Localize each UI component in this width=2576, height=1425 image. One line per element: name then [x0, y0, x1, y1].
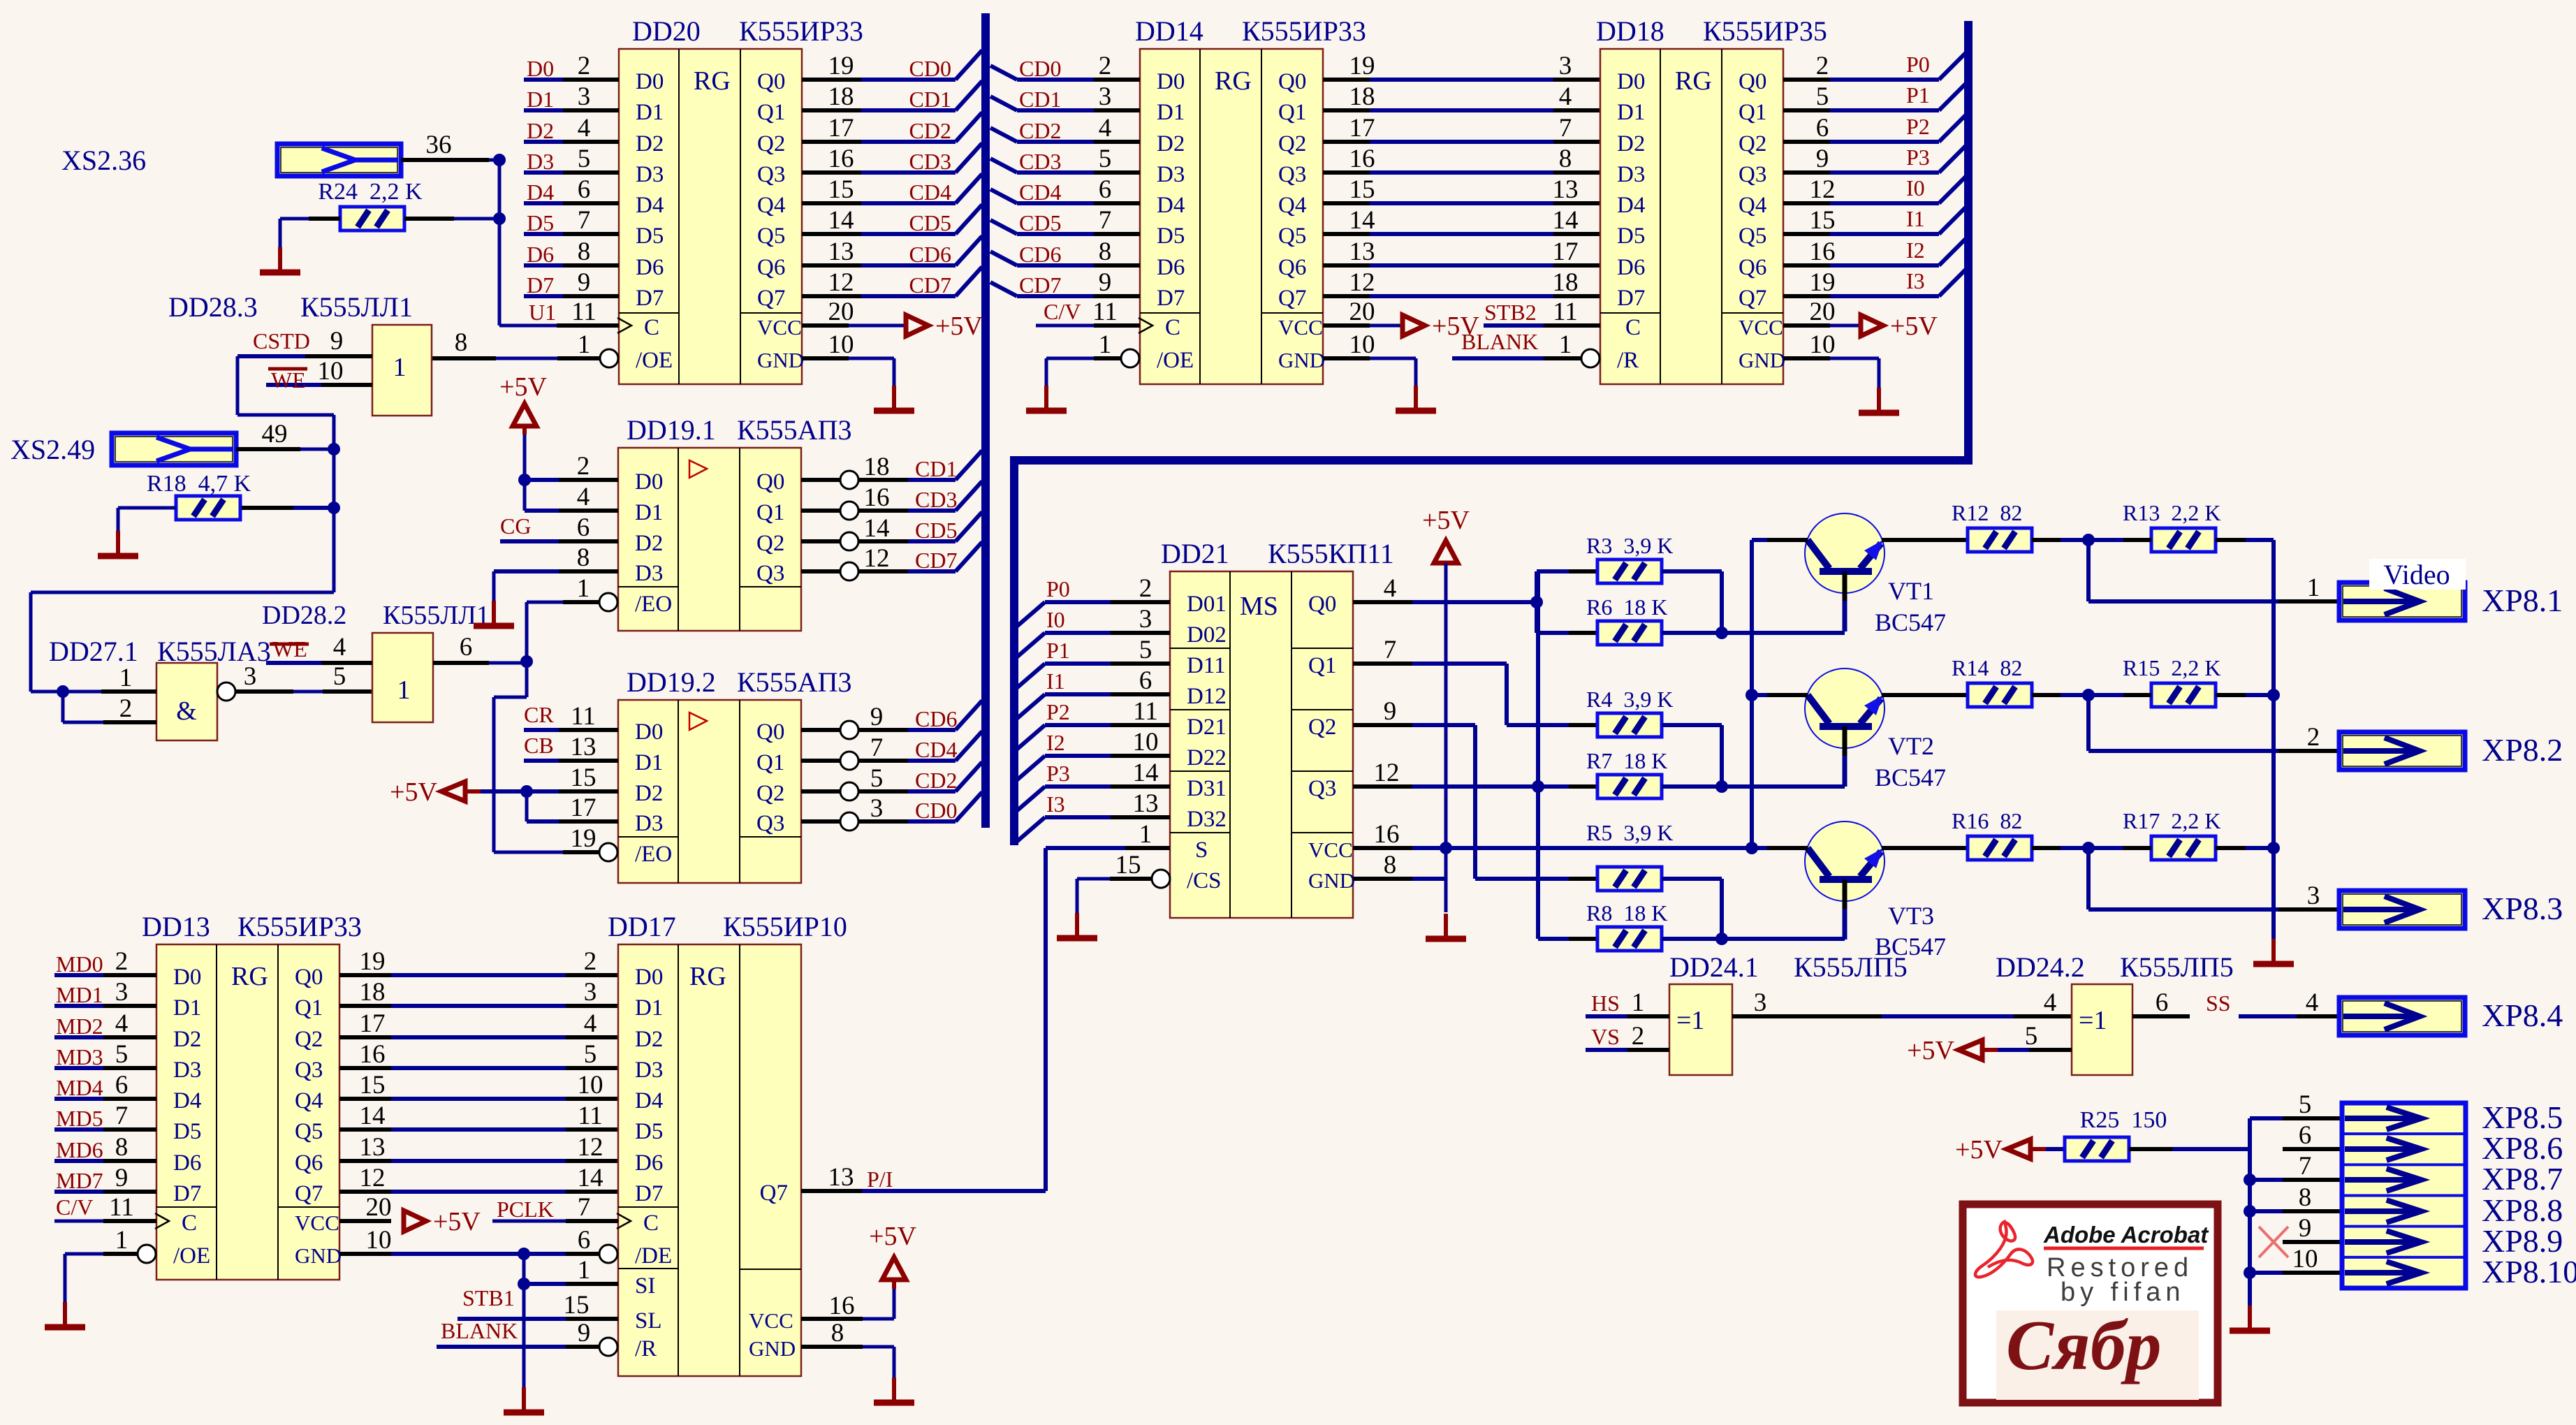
svg-text:C: C: [643, 1211, 659, 1236]
svg-text:GND: GND: [749, 1336, 796, 1361]
svg-text:15: 15: [360, 1071, 386, 1099]
svg-text:RG: RG: [1215, 66, 1252, 96]
svg-text:D4: D4: [173, 1088, 201, 1113]
svg-text:U1: U1: [529, 300, 556, 325]
svg-text:D4: D4: [1157, 193, 1185, 218]
svg-text:D5: D5: [635, 1119, 663, 1144]
svg-text:D3: D3: [1617, 162, 1645, 187]
svg-text:2: 2: [119, 694, 133, 723]
svg-text:8: 8: [1099, 237, 1112, 266]
svg-text:4: 4: [333, 633, 346, 662]
svg-text:14: 14: [1133, 759, 1159, 787]
svg-text:4: 4: [2306, 988, 2319, 1017]
svg-text:1: 1: [1099, 330, 1112, 359]
svg-text:Q1: Q1: [295, 995, 323, 1021]
svg-text:13: 13: [828, 1163, 854, 1192]
svg-text:8: 8: [1559, 145, 1572, 173]
svg-text:MD3: MD3: [56, 1044, 103, 1069]
svg-text:CD7: CD7: [915, 548, 957, 573]
svg-text:16: 16: [864, 483, 890, 512]
svg-text:R16 82: R16 82: [1952, 808, 2022, 833]
svg-text:18: 18: [1349, 82, 1375, 111]
svg-text:3: 3: [244, 662, 257, 691]
svg-text:C: C: [644, 315, 659, 340]
svg-text:D32: D32: [1187, 807, 1227, 832]
svg-text:Q0: Q0: [1278, 69, 1306, 94]
svg-text:R17 2,2 K: R17 2,2 K: [2123, 808, 2220, 833]
svg-text:15: 15: [828, 175, 854, 204]
svg-text:Q5: Q5: [757, 224, 785, 249]
svg-text:Q1: Q1: [757, 100, 785, 125]
svg-text:CD4: CD4: [1019, 180, 1061, 205]
svg-text:CD6: CD6: [915, 706, 957, 731]
svg-text:D1: D1: [1617, 100, 1645, 125]
svg-text:Сябр: Сябр: [2006, 1306, 2161, 1385]
svg-text:CD6: CD6: [909, 242, 951, 267]
svg-text:CD5: CD5: [915, 518, 957, 543]
svg-text:2: 2: [1816, 52, 1829, 80]
svg-text:DD27.1: DD27.1: [49, 636, 138, 667]
svg-text:/R: /R: [635, 1336, 657, 1361]
svg-text:Q3: Q3: [756, 811, 784, 836]
svg-text:D2: D2: [636, 131, 664, 156]
svg-text:Q5: Q5: [1739, 224, 1766, 249]
svg-text:CD6: CD6: [1019, 242, 1061, 267]
svg-text:6: 6: [115, 1071, 129, 1099]
svg-text:MD4: MD4: [56, 1075, 103, 1100]
svg-text:16: 16: [360, 1040, 386, 1069]
svg-text:12: 12: [1349, 268, 1375, 297]
svg-text:BC547: BC547: [1875, 608, 1946, 636]
svg-text:XP8.1: XP8.1: [2482, 583, 2563, 618]
svg-text:CD1: CD1: [915, 456, 957, 481]
svg-text:P2: P2: [1046, 699, 1070, 724]
svg-text:1: 1: [577, 574, 590, 603]
svg-text:6: 6: [577, 513, 590, 542]
svg-text:D2: D2: [1157, 131, 1185, 156]
svg-text:R8 18 K: R8 18 K: [1586, 900, 1667, 926]
svg-text:MD6: MD6: [56, 1137, 103, 1162]
svg-text:/EO: /EO: [635, 842, 672, 867]
svg-text:XP8.4: XP8.4: [2482, 997, 2563, 1033]
svg-text:D01: D01: [1187, 592, 1227, 617]
svg-text:D4: D4: [635, 1088, 663, 1113]
svg-text:7: 7: [1099, 206, 1112, 235]
svg-text:CD1: CD1: [909, 87, 951, 112]
svg-text:I1: I1: [1906, 206, 1925, 231]
svg-text:C/V: C/V: [1044, 299, 1081, 324]
svg-text:D2: D2: [1617, 131, 1645, 156]
svg-text:D0: D0: [635, 469, 663, 495]
svg-text:4: 4: [584, 1009, 597, 1038]
svg-text:D0: D0: [1617, 69, 1645, 94]
svg-text:5: 5: [2025, 1022, 2038, 1051]
svg-text:Q1: Q1: [1308, 653, 1336, 678]
svg-text:XP8.10: XP8.10: [2482, 1254, 2576, 1289]
svg-text:D3: D3: [1157, 162, 1185, 187]
svg-text:XS2.49: XS2.49: [10, 434, 95, 465]
svg-text:9: 9: [870, 703, 884, 731]
svg-text:/OE: /OE: [1157, 348, 1194, 373]
svg-text:D7: D7: [1617, 286, 1645, 311]
svg-text:Q4: Q4: [1739, 193, 1766, 218]
svg-text:11: 11: [109, 1193, 134, 1222]
svg-text:I3: I3: [1046, 791, 1065, 817]
svg-text:D3: D3: [527, 149, 554, 174]
svg-text:5: 5: [115, 1040, 129, 1069]
svg-text:Q6: Q6: [1739, 255, 1766, 280]
svg-text:BLANK: BLANK: [1461, 329, 1538, 354]
svg-text:5: 5: [1816, 82, 1829, 111]
svg-text:Q7: Q7: [1278, 286, 1306, 311]
svg-text:К555ИР33: К555ИР33: [1242, 15, 1366, 47]
svg-text:13: 13: [1133, 789, 1159, 818]
svg-text:5: 5: [333, 662, 346, 691]
svg-text:D5: D5: [636, 224, 664, 249]
svg-text:5: 5: [584, 1040, 597, 1069]
svg-text:6: 6: [460, 633, 473, 662]
svg-text:11: 11: [571, 702, 596, 731]
svg-text:Q2: Q2: [1739, 131, 1766, 156]
svg-text:+5V: +5V: [433, 1207, 481, 1236]
svg-text:GND: GND: [757, 348, 804, 372]
svg-text:3: 3: [1139, 605, 1152, 634]
svg-text:10: 10: [1133, 728, 1159, 757]
svg-text:Q2: Q2: [1278, 131, 1306, 156]
svg-text:SI: SI: [635, 1273, 655, 1299]
svg-text:3: 3: [1099, 82, 1112, 111]
svg-text:DD24.1: DD24.1: [1669, 951, 1759, 983]
svg-text:49: 49: [262, 420, 288, 448]
svg-text:Q4: Q4: [757, 193, 785, 218]
svg-text:GND: GND: [1739, 348, 1785, 372]
svg-text:К555КП11: К555КП11: [1268, 538, 1394, 569]
svg-text:R15 2,2 K: R15 2,2 K: [2123, 655, 2220, 680]
svg-text:8: 8: [2299, 1183, 2312, 1212]
svg-text:14: 14: [1349, 206, 1375, 235]
svg-text:STB2: STB2: [1484, 300, 1537, 325]
svg-text:D1: D1: [636, 100, 664, 125]
svg-text:D0: D0: [1157, 69, 1185, 94]
svg-text:S: S: [1195, 838, 1208, 863]
svg-text:2: 2: [1099, 52, 1112, 80]
svg-text:17: 17: [360, 1009, 386, 1038]
svg-text:I0: I0: [1046, 607, 1065, 632]
svg-text:DD21: DD21: [1161, 538, 1229, 569]
svg-text:17: 17: [828, 114, 854, 142]
svg-text:К555ЛЛ1: К555ЛЛ1: [300, 291, 413, 323]
svg-text:R25 150: R25 150: [2080, 1107, 2167, 1133]
svg-text:+5V: +5V: [499, 372, 547, 402]
svg-text:WE: WE: [271, 367, 306, 393]
svg-text:R18 4,7 K: R18 4,7 K: [147, 471, 251, 497]
svg-text:D6: D6: [1157, 255, 1185, 280]
svg-text:VT2: VT2: [1888, 732, 1934, 760]
svg-text:D1: D1: [635, 750, 663, 775]
svg-text:15: 15: [1810, 206, 1836, 235]
svg-text:Q2: Q2: [757, 131, 785, 156]
svg-text:15: 15: [564, 1291, 590, 1320]
svg-text:VCC: VCC: [295, 1211, 339, 1235]
svg-text:D4: D4: [527, 180, 554, 205]
svg-text:CD3: CD3: [909, 149, 951, 174]
svg-text:Q3: Q3: [1308, 776, 1336, 801]
svg-text:DD28.2: DD28.2: [262, 601, 346, 630]
svg-text:GND: GND: [1278, 348, 1325, 372]
svg-text:9: 9: [2299, 1214, 2312, 1243]
svg-text:CD5: CD5: [1019, 210, 1061, 235]
svg-text:R12 82: R12 82: [1952, 500, 2022, 525]
svg-text:20: 20: [1810, 298, 1836, 326]
svg-text:10: 10: [1810, 330, 1836, 359]
svg-text:1: 1: [1632, 988, 1645, 1017]
svg-text:Q5: Q5: [1278, 224, 1306, 249]
svg-text:D6: D6: [527, 242, 554, 267]
svg-text:13: 13: [571, 733, 597, 761]
svg-text:Q6: Q6: [757, 255, 785, 280]
svg-text:D2: D2: [173, 1027, 201, 1052]
svg-text:C/V: C/V: [56, 1194, 93, 1220]
svg-text:7: 7: [578, 1193, 591, 1222]
svg-text:/OE: /OE: [636, 348, 673, 373]
svg-text:DD13: DD13: [142, 911, 210, 942]
svg-text:5: 5: [870, 764, 884, 793]
svg-text:12: 12: [1374, 759, 1400, 787]
svg-text:4: 4: [577, 483, 590, 511]
svg-text:D0: D0: [173, 965, 201, 990]
svg-text:P2: P2: [1906, 114, 1930, 139]
svg-text:R5 3,9 K: R5 3,9 K: [1586, 820, 1673, 845]
svg-text:CD2: CD2: [915, 768, 957, 793]
svg-text:2: 2: [115, 947, 129, 976]
svg-text:XP8.2: XP8.2: [2482, 732, 2563, 768]
svg-text:PCLK: PCLK: [497, 1197, 554, 1222]
svg-text:+5V: +5V: [390, 777, 437, 807]
svg-text:К555ИР35: К555ИР35: [1703, 15, 1827, 47]
svg-text:+5V: +5V: [1955, 1135, 2003, 1164]
svg-text:I0: I0: [1906, 175, 1925, 200]
svg-text:C: C: [1165, 315, 1180, 340]
svg-text:10: 10: [1349, 330, 1375, 359]
svg-text:CD4: CD4: [909, 180, 951, 205]
svg-text:+5V: +5V: [869, 1222, 916, 1251]
svg-text:D6: D6: [635, 1150, 663, 1176]
svg-text:17: 17: [1349, 114, 1375, 142]
svg-text:14: 14: [864, 514, 890, 543]
svg-text:by fifan: by fifan: [2061, 1278, 2186, 1307]
svg-text:P0: P0: [1046, 576, 1070, 601]
svg-text:19: 19: [360, 947, 386, 976]
svg-text:3: 3: [870, 794, 884, 823]
svg-text:К555ИР33: К555ИР33: [237, 911, 362, 942]
svg-text:18: 18: [828, 82, 854, 111]
svg-text:CR: CR: [524, 702, 554, 727]
svg-text:CD0: CD0: [1019, 56, 1061, 81]
svg-text:D7: D7: [635, 1181, 663, 1206]
svg-text:I3: I3: [1906, 268, 1925, 293]
svg-text:12: 12: [360, 1164, 386, 1192]
svg-text:MS: MS: [1240, 592, 1278, 621]
svg-text:6: 6: [578, 175, 591, 204]
svg-text:3: 3: [2307, 882, 2320, 910]
svg-text:1: 1: [115, 1226, 129, 1255]
svg-text:D0: D0: [635, 719, 663, 745]
svg-text:BLANK: BLANK: [441, 1318, 518, 1343]
svg-text:9: 9: [578, 268, 591, 297]
svg-text:Q4: Q4: [1278, 193, 1306, 218]
svg-text:7: 7: [578, 206, 591, 235]
svg-text:D2: D2: [635, 1027, 663, 1052]
svg-text:D1: D1: [635, 500, 663, 525]
svg-text:/DE: /DE: [635, 1243, 672, 1269]
svg-text:D21: D21: [1187, 715, 1227, 740]
svg-text:20: 20: [1349, 298, 1375, 326]
svg-text:D3: D3: [635, 811, 663, 836]
svg-text:16: 16: [828, 145, 854, 173]
svg-text:SS: SS: [2206, 991, 2231, 1016]
svg-text:5: 5: [2299, 1090, 2312, 1119]
svg-text:К555АП3: К555АП3: [737, 414, 851, 446]
svg-text:9: 9: [1384, 697, 1397, 726]
svg-text:P1: P1: [1906, 82, 1930, 108]
svg-text:D3: D3: [635, 1058, 663, 1083]
svg-text:WE: WE: [272, 636, 307, 662]
svg-text:Q7: Q7: [757, 286, 785, 311]
svg-text:D6: D6: [1617, 255, 1645, 280]
svg-text:7: 7: [1384, 636, 1397, 664]
svg-text:8: 8: [1384, 851, 1397, 879]
svg-text:D22: D22: [1187, 745, 1227, 770]
svg-text:Q3: Q3: [295, 1058, 323, 1083]
svg-text:13: 13: [360, 1133, 386, 1162]
svg-text:5: 5: [1139, 636, 1152, 664]
svg-text:Q0: Q0: [756, 719, 784, 745]
svg-text:D4: D4: [1617, 193, 1645, 218]
svg-text:D11: D11: [1187, 653, 1226, 678]
svg-text:Q1: Q1: [1278, 100, 1306, 125]
svg-text:1: 1: [2307, 573, 2320, 602]
svg-text:MD7: MD7: [56, 1168, 103, 1193]
svg-text:18: 18: [1553, 268, 1579, 297]
svg-text:11: 11: [1133, 697, 1158, 726]
svg-text:1: 1: [119, 664, 133, 692]
svg-text:14: 14: [360, 1102, 386, 1130]
svg-text:16: 16: [1374, 820, 1400, 849]
svg-text:Q0: Q0: [1308, 592, 1336, 617]
svg-text:R3 3,9 K: R3 3,9 K: [1586, 533, 1673, 558]
svg-text:D2: D2: [635, 531, 663, 556]
svg-text:CSTD: CSTD: [253, 328, 310, 353]
svg-text:D2: D2: [635, 781, 663, 806]
svg-text:D3: D3: [636, 162, 664, 187]
svg-text:DD19.2: DD19.2: [627, 666, 716, 698]
svg-text:2: 2: [2307, 723, 2320, 752]
svg-text:VCC: VCC: [1278, 315, 1323, 339]
svg-text:Q0: Q0: [1739, 69, 1766, 94]
svg-text:Q1: Q1: [1739, 100, 1766, 125]
svg-text:D1: D1: [173, 995, 201, 1021]
svg-text:D31: D31: [1187, 776, 1227, 801]
svg-text:I2: I2: [1046, 730, 1065, 755]
svg-text:HS: HS: [1591, 991, 1620, 1016]
svg-text:D12: D12: [1187, 684, 1227, 709]
svg-text:D6: D6: [636, 255, 664, 280]
svg-text:7: 7: [115, 1102, 129, 1130]
svg-text:10: 10: [828, 330, 854, 359]
svg-text:2: 2: [1139, 574, 1152, 603]
svg-text:16: 16: [1349, 145, 1375, 173]
svg-text:D3: D3: [173, 1058, 201, 1083]
svg-text:CD7: CD7: [909, 272, 951, 298]
svg-text:VT3: VT3: [1888, 902, 1934, 930]
svg-text:DD24.2: DD24.2: [1996, 951, 2085, 983]
svg-text:RG: RG: [1675, 66, 1712, 96]
svg-text:C: C: [182, 1211, 197, 1236]
svg-text:=1: =1: [1676, 1006, 1704, 1035]
svg-text:VCC: VCC: [749, 1308, 793, 1333]
svg-text:19: 19: [828, 52, 854, 80]
svg-text:MD5: MD5: [56, 1106, 103, 1131]
svg-text:20: 20: [366, 1193, 392, 1222]
svg-text:GND: GND: [1308, 868, 1355, 893]
svg-text:14: 14: [578, 1164, 603, 1192]
svg-text:Q2: Q2: [295, 1027, 323, 1052]
svg-text:SL: SL: [635, 1308, 662, 1333]
svg-text:CD3: CD3: [1019, 149, 1061, 174]
svg-text:D1: D1: [527, 87, 554, 112]
svg-text:9: 9: [115, 1164, 129, 1192]
svg-text:P1: P1: [1046, 638, 1070, 663]
svg-text:4: 4: [578, 114, 591, 142]
svg-text:8: 8: [578, 237, 591, 266]
svg-text:Q7: Q7: [760, 1181, 788, 1206]
svg-text:15: 15: [571, 763, 597, 792]
svg-text:10: 10: [578, 1071, 603, 1099]
svg-text:13: 13: [828, 237, 854, 266]
svg-text:VCC: VCC: [757, 315, 802, 339]
svg-text:Q2: Q2: [756, 531, 784, 556]
svg-text:D0: D0: [635, 965, 663, 990]
svg-text:D7: D7: [1157, 286, 1185, 311]
svg-text:DD19.1: DD19.1: [627, 414, 716, 446]
svg-text:1: 1: [1139, 820, 1152, 849]
svg-text:D02: D02: [1187, 622, 1227, 648]
svg-text:1: 1: [397, 675, 411, 705]
svg-text:VT1: VT1: [1888, 577, 1934, 605]
svg-text:3: 3: [1754, 988, 1767, 1017]
svg-text:3: 3: [584, 978, 597, 1007]
svg-text:D5: D5: [1617, 224, 1645, 249]
svg-text:D4: D4: [636, 193, 664, 218]
svg-text:R6 18 K: R6 18 K: [1586, 594, 1667, 620]
svg-text:Q0: Q0: [295, 965, 323, 990]
svg-text:6: 6: [2299, 1121, 2312, 1150]
svg-text:4: 4: [1384, 574, 1397, 603]
svg-text:+5V: +5V: [935, 312, 983, 341]
svg-text:6: 6: [1139, 666, 1152, 695]
svg-text:8: 8: [455, 328, 468, 357]
svg-text:/R: /R: [1617, 348, 1639, 373]
svg-text:D5: D5: [173, 1119, 201, 1144]
svg-text:4: 4: [1559, 82, 1572, 111]
svg-text:1: 1: [1559, 330, 1572, 359]
svg-text:4: 4: [2044, 988, 2057, 1017]
svg-text:15: 15: [1349, 175, 1375, 204]
svg-text:12: 12: [1810, 175, 1836, 204]
svg-text:10: 10: [366, 1226, 392, 1255]
svg-text:10: 10: [2292, 1245, 2318, 1273]
svg-text:1: 1: [393, 353, 407, 382]
